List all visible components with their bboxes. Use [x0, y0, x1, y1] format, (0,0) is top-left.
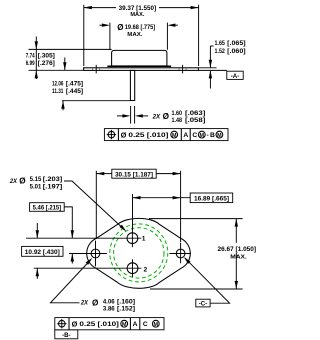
svg-text:[.475]: [.475] [66, 81, 83, 88]
svg-text:MAX.: MAX. [127, 32, 143, 38]
svg-text:26.67 [1.050]: 26.67 [1.050] [218, 246, 257, 253]
svg-text:[.063]: [.063] [185, 110, 205, 117]
svg-text:Ø: Ø [92, 298, 99, 307]
svg-text:0.25 [.010]: 0.25 [.010] [79, 321, 119, 328]
svg-text:1.52: 1.52 [215, 48, 226, 55]
svg-text:[.305]: [.305] [38, 53, 55, 60]
svg-text:C: C [192, 132, 197, 139]
svg-text:-: - [206, 132, 208, 139]
svg-text:11.31: 11.31 [52, 88, 64, 95]
svg-text:-A-: -A- [231, 73, 239, 80]
svg-text:19.68 [.775]: 19.68 [.775] [125, 24, 155, 31]
svg-text:MAX.: MAX. [130, 12, 144, 18]
svg-text:1.60: 1.60 [172, 110, 183, 117]
svg-text:30.15 [1.187]: 30.15 [1.187] [115, 171, 153, 178]
svg-text:3.86: 3.86 [103, 305, 115, 312]
svg-text:B: B [210, 132, 215, 139]
svg-text:[.197]: [.197] [43, 183, 63, 190]
svg-text:10.92 [.430]: 10.92 [.430] [25, 249, 60, 256]
svg-text:[.060]: [.060] [227, 48, 245, 55]
svg-text:4.06: 4.06 [103, 298, 115, 305]
svg-text:5.46 [.215]: 5.46 [.215] [33, 205, 62, 212]
svg-text:5.15: 5.15 [30, 176, 42, 183]
svg-text:16.89 [.665]: 16.89 [.665] [194, 195, 229, 202]
svg-text:7.74: 7.74 [26, 53, 35, 60]
svg-text:6.99: 6.99 [26, 60, 35, 67]
svg-text:[.152]: [.152] [117, 305, 135, 312]
svg-text:M: M [200, 133, 205, 139]
svg-text:[.160]: [.160] [117, 298, 135, 305]
svg-text:-C-: -C- [199, 300, 207, 307]
svg-text:Ø: Ø [163, 112, 170, 121]
svg-text:1.65: 1.65 [215, 40, 226, 47]
svg-text:12.06: 12.06 [52, 81, 64, 88]
svg-text:MAX.: MAX. [230, 254, 247, 260]
svg-text:-B-: -B- [62, 332, 70, 339]
svg-text:M: M [217, 133, 222, 139]
svg-text:M: M [172, 133, 177, 139]
svg-text:A: A [133, 321, 138, 328]
svg-text:C: C [143, 321, 148, 328]
svg-text:5.01: 5.01 [30, 183, 42, 190]
svg-text:M: M [154, 322, 159, 328]
svg-text:M: M [122, 322, 127, 328]
svg-text:2X: 2X [80, 300, 88, 307]
svg-text:2X: 2X [9, 178, 17, 185]
svg-text:1: 1 [142, 236, 146, 243]
svg-text:2: 2 [144, 266, 148, 273]
svg-text:0.25 [.010]: 0.25 [.010] [128, 132, 168, 139]
svg-text:Ø: Ø [117, 23, 123, 32]
svg-text:2X: 2X [152, 113, 161, 120]
svg-text:Ø: Ø [19, 177, 26, 186]
svg-text:[.445]: [.445] [66, 88, 83, 95]
svg-text:1.48: 1.48 [172, 117, 183, 124]
svg-text:[.065]: [.065] [227, 40, 245, 47]
svg-text:[.058]: [.058] [185, 117, 205, 124]
svg-text:[.276]: [.276] [38, 60, 55, 67]
svg-text:A: A [183, 132, 188, 139]
svg-text:Ø: Ø [121, 130, 127, 139]
svg-text:Ø: Ø [72, 320, 78, 329]
svg-text:[.203]: [.203] [43, 176, 63, 183]
